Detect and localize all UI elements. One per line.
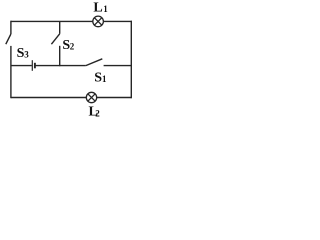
wire bottom side left segment <box>11 97 86 99</box>
wire bottom side right segment <box>97 97 131 99</box>
wire top side right segment <box>103 20 132 22</box>
switch S2 blade <box>51 34 59 44</box>
svg-text:3: 3 <box>24 50 29 60</box>
svg-text:L: L <box>93 1 102 16</box>
switch S3 blade <box>6 34 11 44</box>
svg-text:S: S <box>94 71 102 86</box>
wire right side <box>130 21 132 99</box>
svg-text:2: 2 <box>95 109 100 119</box>
wire middle right segment <box>104 65 132 67</box>
wire top side left segment <box>11 20 93 22</box>
svg-text:2: 2 <box>70 41 75 51</box>
lamp L1 <box>93 16 104 27</box>
battery long plate <box>31 60 33 71</box>
lamp L2 <box>86 92 96 102</box>
svg-text:1: 1 <box>103 4 108 14</box>
switch S2 upper terminal (middle branch) <box>59 21 61 33</box>
battery short plate <box>34 63 36 69</box>
wire middle center segment <box>35 65 85 67</box>
wire middle left segment <box>11 65 32 67</box>
switch S3 upper terminal (left side) <box>10 21 12 34</box>
switch S2 lower terminal (middle branch) <box>59 46 61 66</box>
switch S1 blade <box>86 59 103 66</box>
switch S3 lower terminal / wire left side lower <box>10 46 12 98</box>
svg-text:1: 1 <box>102 74 107 84</box>
